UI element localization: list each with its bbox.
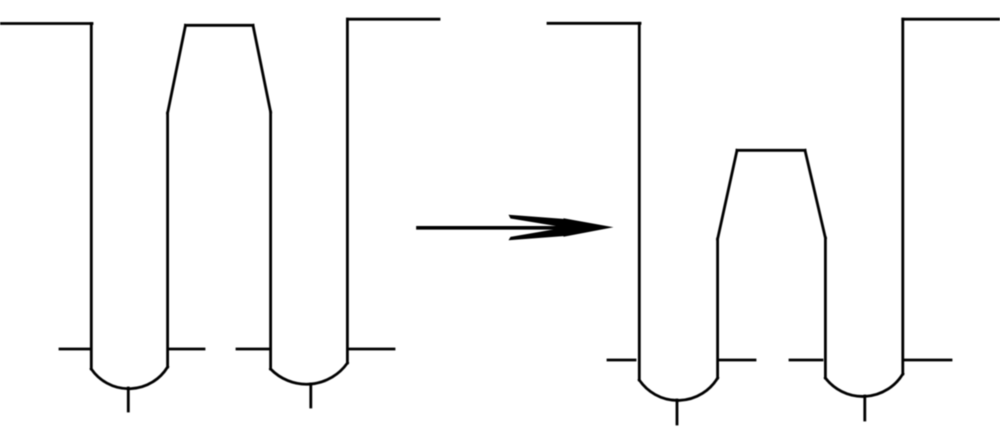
process arrow shaft [418, 226, 570, 230]
left profile: mound top surface [186, 24, 254, 27]
left profile: trench 1 right wall / mound left wall [166, 113, 169, 367]
left profile: top surface line (right) [347, 18, 439, 21]
left profile: trench 1 rounded bottom arc [91, 367, 167, 389]
right profile: trench 2 right wall [901, 19, 904, 374]
left profile: left trench outer wall [90, 24, 93, 370]
right profile: trench 2 bottom center tick [863, 396, 866, 420]
right profile: trench 1 rounded bottom arc [639, 378, 717, 400]
left profile: depth tick right of trench 2 [349, 348, 394, 351]
left profile: top surface line (far left) [0, 22, 92, 25]
right profile: trench 2 rounded bottom arc [825, 374, 902, 396]
left profile: trench 2 right wall [346, 19, 349, 363]
right profile: trench 1 bottom center tick [676, 400, 679, 424]
right profile: top surface line (left) [548, 22, 640, 25]
right profile: mound top surface [737, 149, 805, 152]
left profile: mound left slanted side [168, 25, 186, 113]
left profile: trench 1 bottom center tick [127, 388, 130, 411]
left profile: depth tick left of trench 1 [60, 348, 89, 351]
process arrow head lower barb [509, 228, 566, 241]
left profile: mound right slanted side [253, 25, 271, 112]
right profile: depth tick left of trench 1 [608, 359, 635, 362]
right profile: mound left slanted side [718, 150, 737, 239]
right profile: trench 1 right wall / mound left wall [716, 239, 719, 378]
right profile: depth tick right of trench 1 [719, 359, 755, 362]
right profile: depth tick left of trench 2 [790, 359, 822, 362]
process arrow head tip [564, 218, 614, 237]
left profile: depth tick right of trench 1 [169, 348, 204, 351]
right profile: left trench outer wall [638, 23, 641, 380]
right profile: mound right slanted side [805, 150, 825, 238]
left profile: trench 2 rounded bottom arc [271, 363, 348, 384]
right profile: depth tick right of trench 2 [905, 359, 951, 362]
right profile: mound right wall / trench 2 left wall [824, 238, 827, 378]
left profile: mound right wall / trench 2 left wall [269, 112, 272, 369]
right profile: top surface line (right) [903, 18, 1000, 21]
left profile: depth tick left of trench 2 [237, 348, 269, 351]
left profile: trench 2 bottom center tick [309, 384, 312, 407]
process arrow head upper barb [509, 215, 566, 228]
